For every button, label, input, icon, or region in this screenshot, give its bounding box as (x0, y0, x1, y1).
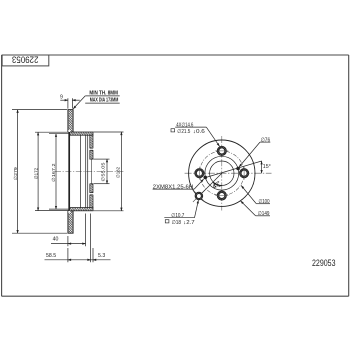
callout diameter 149 (241, 201, 270, 216)
svg-text:MAX DIA 173MM: MAX DIA 173MM (90, 97, 119, 103)
service hole 10.7 with 18 counterbore (193, 190, 205, 202)
svg-text:229053: 229053 (312, 258, 336, 268)
svg-text:∅76: ∅76 (261, 137, 271, 144)
bolt hole 2 (left) (195, 167, 204, 180)
svg-text:5.3: 5.3 (98, 253, 105, 259)
callout diameter 10.7, counterbore 18 depth 2.7 (164, 200, 198, 218)
svg-text:2XM8X1.25-6H: 2XM8X1.25-6H (153, 184, 193, 190)
svg-text:∅18: ∅18 (172, 219, 182, 226)
callout diameter 76 (239, 142, 270, 167)
drawing sheet border frame (2, 55, 349, 296)
junction relief notches (68, 130, 70, 132)
svg-text:9: 9 (60, 94, 63, 100)
callout 2X M8X1.25-6H (153, 179, 204, 189)
section axis centerline (55, 170, 124, 172)
dimensions diameter 172 and diameter 167.2 (35, 132, 69, 210)
hat interior edges (81, 135, 88, 208)
svg-text:↓2.7: ↓2.7 (183, 220, 195, 226)
bolt hole 1 (top), 14.6 with 21.5 counterbore (195, 146, 249, 200)
svg-text:∅182: ∅182 (116, 167, 121, 178)
circle diameter 76 (M8 pitch circle) (205, 156, 239, 190)
callout 4X diameter 14.6, counterbore 21.5 depth 0.6 (175, 127, 219, 146)
svg-text:∅279: ∅279 (13, 167, 18, 180)
svg-text:∅167.2: ∅167.2 (51, 163, 56, 182)
45 degree position line to service hole (202, 173, 222, 193)
15 degree reference line through M8 holes (204, 161, 262, 178)
friction ring section, upper half (68, 110, 73, 132)
svg-text:∅100: ∅100 (259, 198, 270, 205)
svg-text:∅172: ∅172 (33, 167, 38, 179)
friction ring section, lower half (68, 211, 73, 233)
dimensions 58.5 (overall height) and 5.3 (plate thickness) (45, 214, 111, 263)
45 degree angular dimension arc (213, 182, 222, 186)
vertical centerline (221, 136, 223, 211)
hub mounting face plate section segments (90, 135, 93, 207)
dimension 9 (disc thickness) (60, 98, 80, 108)
svg-text:∅21.5: ∅21.5 (177, 128, 190, 135)
svg-text:40: 40 (53, 236, 59, 242)
horizontal centerline (185, 172, 272, 174)
svg-text:∅10.7: ∅10.7 (171, 212, 184, 219)
15 degree angular dimension (261, 161, 263, 173)
svg-text:↓0.6: ↓0.6 (193, 129, 205, 135)
hat cylinder wall section, lower (69, 208, 93, 211)
svg-text:∅55.05: ∅55.05 (101, 162, 106, 181)
dimension diameter 182 (hat) (94, 132, 124, 211)
center bore and bolt hole edges in face plate (90, 148, 93, 194)
brake disc cross-section view (left) (12, 91, 124, 263)
center bore circle diameter 55.05 (210, 161, 234, 185)
svg-text:MIN TH. 8MM: MIN TH. 8MM (89, 91, 118, 97)
callout diameter 100 (241, 186, 270, 204)
hub outer circle diameter 149 (189, 140, 255, 206)
svg-text:229053: 229053 (12, 55, 39, 66)
svg-text:∅149: ∅149 (258, 210, 270, 217)
dimension 40 (hat depth) (51, 214, 86, 247)
dimension diameter 55.05 (center bore) (94, 159, 110, 184)
title block box with rotated part number 229053 (2, 55, 49, 66)
svg-text:4X∅14.6: 4X∅14.6 (176, 121, 193, 128)
dimension diameter 279 (12, 110, 67, 234)
M8 tapped hole (left, on 15 deg line) (204, 176, 208, 180)
bolt hole 4 (bottom) (215, 191, 228, 200)
bolt circle diameter 100 (dash-dot) (200, 151, 245, 196)
note MIN TH. 8MM / MAX DIA 173MM with leader (73, 96, 120, 109)
hat cylinder wall section, upper (69, 132, 93, 135)
bolt hole 3 (right) (239, 167, 248, 180)
inner friction face edge (thick line) (68, 132, 70, 211)
brake disc front view (right) (153, 121, 272, 226)
M8 tapped hole (right, on 15 deg line) (236, 167, 240, 171)
svg-text:58.5: 58.5 (46, 253, 56, 259)
svg-text:15°: 15° (263, 164, 271, 170)
